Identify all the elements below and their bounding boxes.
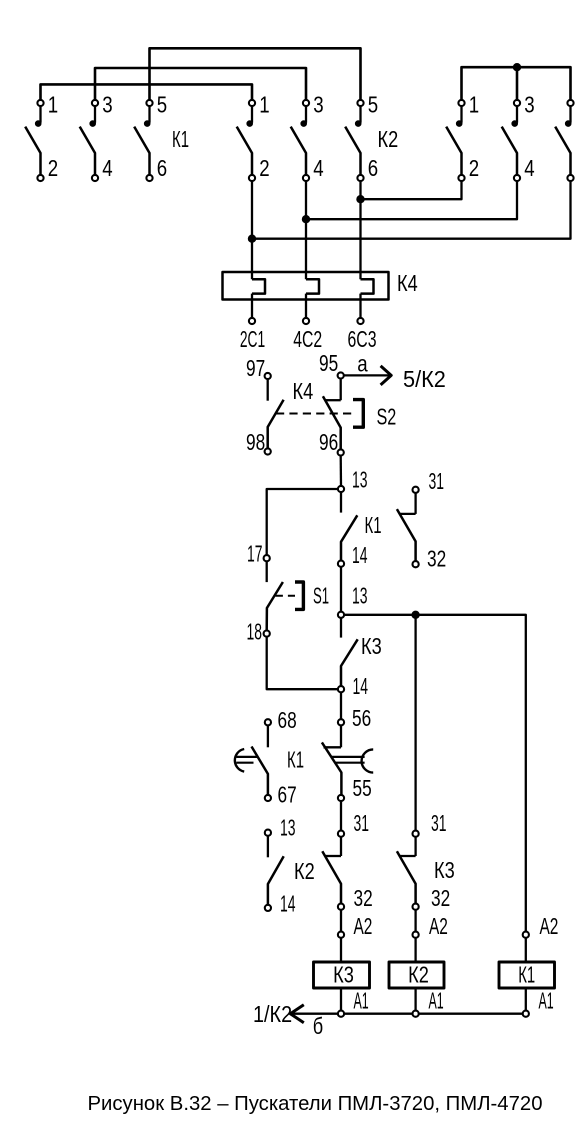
svg-text:6: 6 (368, 155, 378, 181)
svg-text:а: а (357, 350, 368, 376)
svg-text:3: 3 (313, 91, 323, 117)
svg-text:14: 14 (352, 542, 368, 568)
svg-text:32: 32 (427, 546, 446, 572)
contact K2 31-32 (NC interlock) (322, 831, 344, 910)
spare contact K2 13-14 (NO, lower left) (265, 830, 284, 911)
svg-text:4: 4 (313, 155, 324, 181)
svg-text:32: 32 (354, 885, 373, 911)
svg-text:1: 1 (48, 91, 58, 117)
wire bus L2 (K1 pole3 top to K2 pole3 top) (95, 68, 306, 100)
svg-text:17: 17 (247, 541, 263, 567)
contactor K1 main contact pole 3-4 (80, 100, 98, 181)
svg-text:4: 4 (102, 155, 113, 181)
svg-text:A2: A2 (429, 913, 448, 939)
contactor K1 main contact pole 5-6 (134, 100, 152, 181)
svg-text:6С3: 6С3 (348, 326, 377, 352)
svg-text:1: 1 (469, 91, 479, 117)
pin 17 terminal (264, 555, 270, 561)
pin 56 terminal (338, 719, 344, 725)
svg-text:2: 2 (469, 155, 479, 181)
wire coil K1 to bus (525, 988, 527, 1011)
contact K3 13-14 (NO auxiliary) (338, 618, 358, 692)
svg-text:5: 5 (368, 91, 378, 117)
svg-text:К1: К1 (172, 126, 189, 152)
wire 14 to node 13b (340, 567, 342, 612)
contact K4/S2 95-96 (NC) with button S2 (323, 372, 344, 455)
wire 14c to pin 56 (340, 692, 342, 719)
svg-text:К1: К1 (518, 961, 535, 987)
node junction at K2 pole4 wire (302, 215, 310, 223)
node junction at K2 pole6 wire (356, 195, 364, 203)
svg-text:S1: S1 (313, 583, 329, 609)
K4 heater element 1 (249, 279, 265, 324)
svg-text:3: 3 (102, 91, 112, 117)
terminal A2 (K3 coil) (338, 932, 344, 938)
svg-text:96: 96 (319, 429, 338, 455)
svg-text:31: 31 (429, 468, 445, 494)
svg-text:К4: К4 (397, 270, 418, 296)
spare contact 31-32 (NC, upper right) (397, 487, 419, 568)
right contactor main contact pole 3 (555, 100, 573, 181)
svg-text:55: 55 (353, 775, 372, 801)
svg-text:К2: К2 (408, 961, 429, 987)
contact K1 13-14 (NO auxiliary) (338, 492, 357, 567)
svg-text:98: 98 (246, 429, 265, 455)
svg-text:К2: К2 (294, 858, 315, 884)
svg-text:14: 14 (280, 891, 296, 917)
svg-text:4С2: 4С2 (293, 326, 322, 352)
wire A2 to coil K3 (340, 938, 342, 962)
right contactor main contact pole 1 (446, 100, 464, 181)
terminal A2 (K2 coil) (413, 932, 419, 938)
node junction right bus (513, 63, 521, 71)
wire A2 to coil K1 (525, 938, 527, 962)
svg-text:68: 68 (278, 707, 297, 733)
svg-text:2С1: 2С1 (240, 326, 265, 352)
svg-text:97: 97 (246, 355, 265, 381)
wire K2 pole1 bottom to K4 heater 1 (251, 181, 253, 279)
svg-text:К1: К1 (287, 747, 304, 773)
svg-text:31: 31 (431, 810, 447, 836)
right contactor main contact pole 2 (502, 100, 520, 181)
wire 32 to A2 (K2 coil) (414, 910, 416, 932)
button S1 contact 17-18 (NO) (264, 561, 283, 636)
K4 heater element 2 (303, 279, 319, 324)
svg-text:К1: К1 (365, 512, 382, 538)
svg-text:2: 2 (48, 155, 58, 181)
terminal A1 node (K1) (523, 1011, 529, 1017)
mechanical link dashed (S1) (276, 595, 296, 597)
svg-text:56: 56 (352, 705, 371, 731)
wire 96 to node 13a (340, 456, 343, 486)
svg-text:К4: К4 (293, 378, 314, 404)
wire bus right group top (462, 67, 571, 100)
svg-text:К3: К3 (361, 633, 382, 659)
node junction at K2 pole2 wire (248, 235, 256, 243)
svg-text:4: 4 (524, 155, 535, 181)
thermal relay K4 box (223, 272, 389, 300)
svg-text:5/К2: 5/К2 (403, 366, 446, 392)
spare contact K1 68-67 (time-delay, left) (235, 719, 271, 801)
svg-text:б: б (313, 1013, 323, 1039)
svg-text:К3: К3 (333, 961, 354, 987)
button S2 actuator bracket (353, 400, 363, 428)
contact K3 31-32 (NC interlock) (397, 831, 419, 910)
terminal A2 (K1 coil) (523, 932, 529, 938)
node 13a terminal (338, 486, 344, 492)
wire coil K2 to bus (414, 988, 416, 1011)
wire K2 pole3 bottom to K4 heater 2 (305, 181, 307, 279)
svg-text:A1: A1 (429, 988, 444, 1014)
svg-text:S2: S2 (377, 404, 397, 430)
svg-text:13: 13 (352, 467, 368, 493)
wire 18 to node 14c (267, 637, 338, 690)
contactor K2 main contact pole 1-2 (237, 100, 255, 181)
svg-text:Рисунок В.32 – Пускатели ПМЛ-3: Рисунок В.32 – Пускатели ПМЛ-3720, ПМЛ-4… (88, 1092, 543, 1115)
wire node a to terminal 5/K2 with arrow (344, 374, 389, 376)
wire node 13b to K1 coil branch (right) (344, 615, 526, 932)
svg-text:32: 32 (431, 885, 450, 911)
svg-text:К2: К2 (378, 126, 399, 152)
svg-text:К3: К3 (434, 857, 455, 883)
wire bus L3 (K1 pole1 top to K2 pole1 top) (41, 84, 253, 99)
svg-text:14: 14 (353, 673, 369, 699)
contactor K2 main contact pole 3-4 (291, 100, 309, 181)
contactor K2 main contact pole 5-6 (345, 100, 363, 181)
svg-text:13: 13 (280, 815, 296, 841)
wire 55 to pin 31 (main column) (340, 801, 342, 831)
terminal A1 node (K3) (338, 1011, 344, 1017)
wire bus L1 (K1 pole5 top to K2 pole5 top) (150, 48, 361, 100)
mechanical link dashed (K4 contacts to S2) (276, 413, 352, 415)
svg-text:95: 95 (319, 350, 338, 376)
coil K3 (314, 961, 370, 988)
svg-text:1/К2: 1/К2 (253, 1001, 292, 1027)
svg-text:18: 18 (247, 619, 263, 645)
svg-text:5: 5 (157, 91, 167, 117)
node junction at K2 coil branch (411, 611, 419, 619)
contactor K1 main contact pole 1-2 (25, 100, 43, 181)
terminal A1 node (K2) (413, 1011, 419, 1017)
coil K1 (499, 961, 555, 988)
node 13b terminal (338, 612, 344, 618)
contact K4 97-98 (NO auxiliary) (265, 373, 284, 455)
svg-text:1: 1 (259, 91, 269, 117)
wire A2 to coil K2 (414, 938, 416, 962)
bottom bus wire to 1/K2 with arrow (293, 1013, 526, 1015)
svg-text:A2: A2 (354, 913, 373, 939)
coil K2 (389, 961, 444, 988)
wire right group middle drop (516, 67, 519, 100)
svg-text:A1: A1 (539, 988, 554, 1014)
wire node 13a branch left down to pin 17 (267, 489, 338, 555)
wire 32 to A2 (K3 coil) (340, 910, 342, 932)
svg-text:6: 6 (157, 155, 167, 181)
svg-text:67: 67 (278, 782, 297, 808)
wire K2 pole5 bottom to K4 heater 3 (359, 181, 361, 279)
svg-text:A1: A1 (354, 988, 369, 1014)
svg-text:3: 3 (524, 91, 534, 117)
contact K1 56-55 (NC time-delay) (322, 725, 373, 801)
wire right pole4 bottom to node on K2 pole4 wire (306, 181, 517, 219)
svg-text:31: 31 (354, 810, 370, 836)
svg-text:13: 13 (352, 582, 368, 608)
wire right pole6 bottom to node on K2 pole2 wire (252, 181, 571, 239)
button S1 actuator bracket (295, 582, 303, 609)
svg-text:A2: A2 (540, 913, 559, 939)
wire right pole2 bottom to node on K2 pole6 wire (361, 181, 462, 199)
wire junction down to pin 31 (K3 branch) (414, 615, 416, 831)
wire coil K3 to bus (340, 988, 342, 1011)
K4 heater element 3 (357, 279, 373, 324)
svg-text:2: 2 (259, 155, 269, 181)
